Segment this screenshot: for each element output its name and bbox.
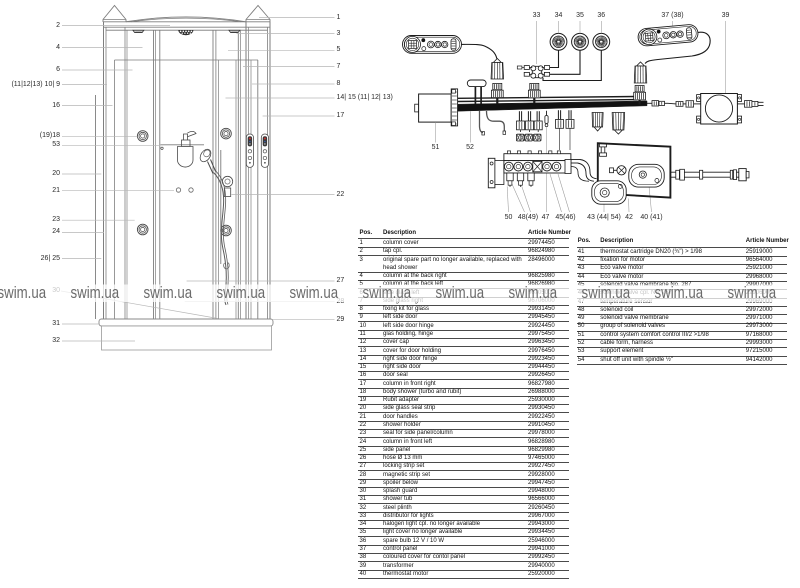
- bus tail to transformer: [647, 102, 652, 104]
- right parts table: [577, 0, 787, 588]
- remote control 37 38: [637, 24, 698, 47]
- label leader lines top: [536, 21, 538, 64]
- watermark band overlay: [0, 285, 800, 303]
- svg-text:swim.ua: swim.ua: [217, 284, 266, 303]
- pipes from manifold: [571, 159, 580, 161]
- head shower dome pos 2 3: [179, 30, 193, 34]
- outlet pipe right: [670, 171, 739, 173]
- coil blocks 48: [516, 134, 524, 141]
- body jets pos 18: [137, 131, 148, 142]
- leaders left side: [62, 25, 170, 27]
- transformer cables: [668, 102, 676, 105]
- shelf pos 53: [161, 144, 205, 146]
- dispenser pos 18: [184, 134, 188, 140]
- svg-text:swim.ua: swim.ua: [728, 284, 777, 303]
- shower tub rim pos 31: [99, 319, 273, 326]
- manifold legs: [507, 173, 513, 181]
- holder pos 22: [222, 176, 232, 186]
- svg-text:swim.ua: swim.ua: [0, 284, 47, 303]
- hose loops mid assembly: [571, 167, 589, 182]
- svg-text:swim.ua: swim.ua: [582, 284, 631, 303]
- svg-text:swim.ua: swim.ua: [363, 284, 412, 303]
- shower cabin drawing: [96, 6, 274, 351]
- roof arc pos 1: [126, 17, 246, 22]
- left parts table: [358, 0, 569, 588]
- drops with connector shoes: [518, 111, 520, 121]
- svg-text:swim.ua: swim.ua: [144, 284, 193, 303]
- svg-text:swim.ua: swim.ua: [655, 284, 704, 303]
- eco motor 43: [592, 181, 626, 204]
- control panel pos 37 left: [246, 134, 253, 167]
- cable remote to connector: [462, 44, 497, 58]
- connector cpl 52 tree A: [493, 59, 501, 63]
- glass top edge: [115, 59, 259, 61]
- svg-text:swim.ua: swim.ua: [71, 284, 120, 303]
- svg-text:swim.ua: swim.ua: [290, 284, 339, 303]
- remote control left: [403, 36, 462, 54]
- vent right pos 3: [229, 30, 240, 32]
- steel plinth pos 32: [102, 326, 272, 350]
- leader lines bottom labels: [507, 187, 508, 213]
- rail: [220, 150, 222, 264]
- callout labels: [0, 21, 60, 31]
- leaders 31 32: [62, 323, 99, 325]
- control panel right: [261, 134, 268, 167]
- solenoid valve 45 49: [617, 166, 626, 175]
- roof cap right: [246, 6, 270, 23]
- wires to lights: [550, 51, 559, 68]
- cable 37 to connector: [645, 32, 710, 63]
- top band: [103, 21, 270, 23]
- tree connectors to motors: [592, 113, 603, 128]
- transformer 39: [697, 95, 701, 102]
- motor 40 41: [629, 164, 664, 187]
- shut-off 54 fitting: [600, 144, 607, 147]
- wiring bus 52: [458, 97, 637, 99]
- temperature sensor 47: [546, 111, 548, 116]
- vent left pos 3: [133, 30, 144, 32]
- distributor 33: [532, 66, 541, 77]
- connector stack A on bus: [493, 83, 502, 89]
- mounting frame 42 thick: [598, 143, 671, 197]
- leaders 27 28 29: [187, 280, 335, 282]
- hook wires: [480, 111, 484, 133]
- leader 30 diagonal: [61, 291, 218, 319]
- columns and glass verticals: [95, 95, 97, 319]
- svg-text:swim.ua: swim.ua: [436, 284, 485, 303]
- hose pos 26: [214, 173, 227, 306]
- door handles pos 21: [176, 188, 180, 192]
- callout leader lines: [61, 18, 335, 342]
- svg-text:swim.ua: swim.ua: [509, 284, 558, 303]
- support element 53: [467, 80, 486, 87]
- halogen lights 34 35 36: [550, 33, 567, 50]
- valve manifold group 50: [488, 158, 495, 188]
- leaders right side: [259, 17, 335, 19]
- roof cap left (pos 1 area): [103, 6, 126, 23]
- control box 51: [415, 104, 419, 112]
- hand shower pos 22: [198, 147, 213, 163]
- wiring and valve schematic: [403, 21, 764, 212]
- drops right pair: [557, 110, 559, 119]
- connector C tree: [637, 62, 645, 66]
- connector stack B on bus: [530, 83, 539, 89]
